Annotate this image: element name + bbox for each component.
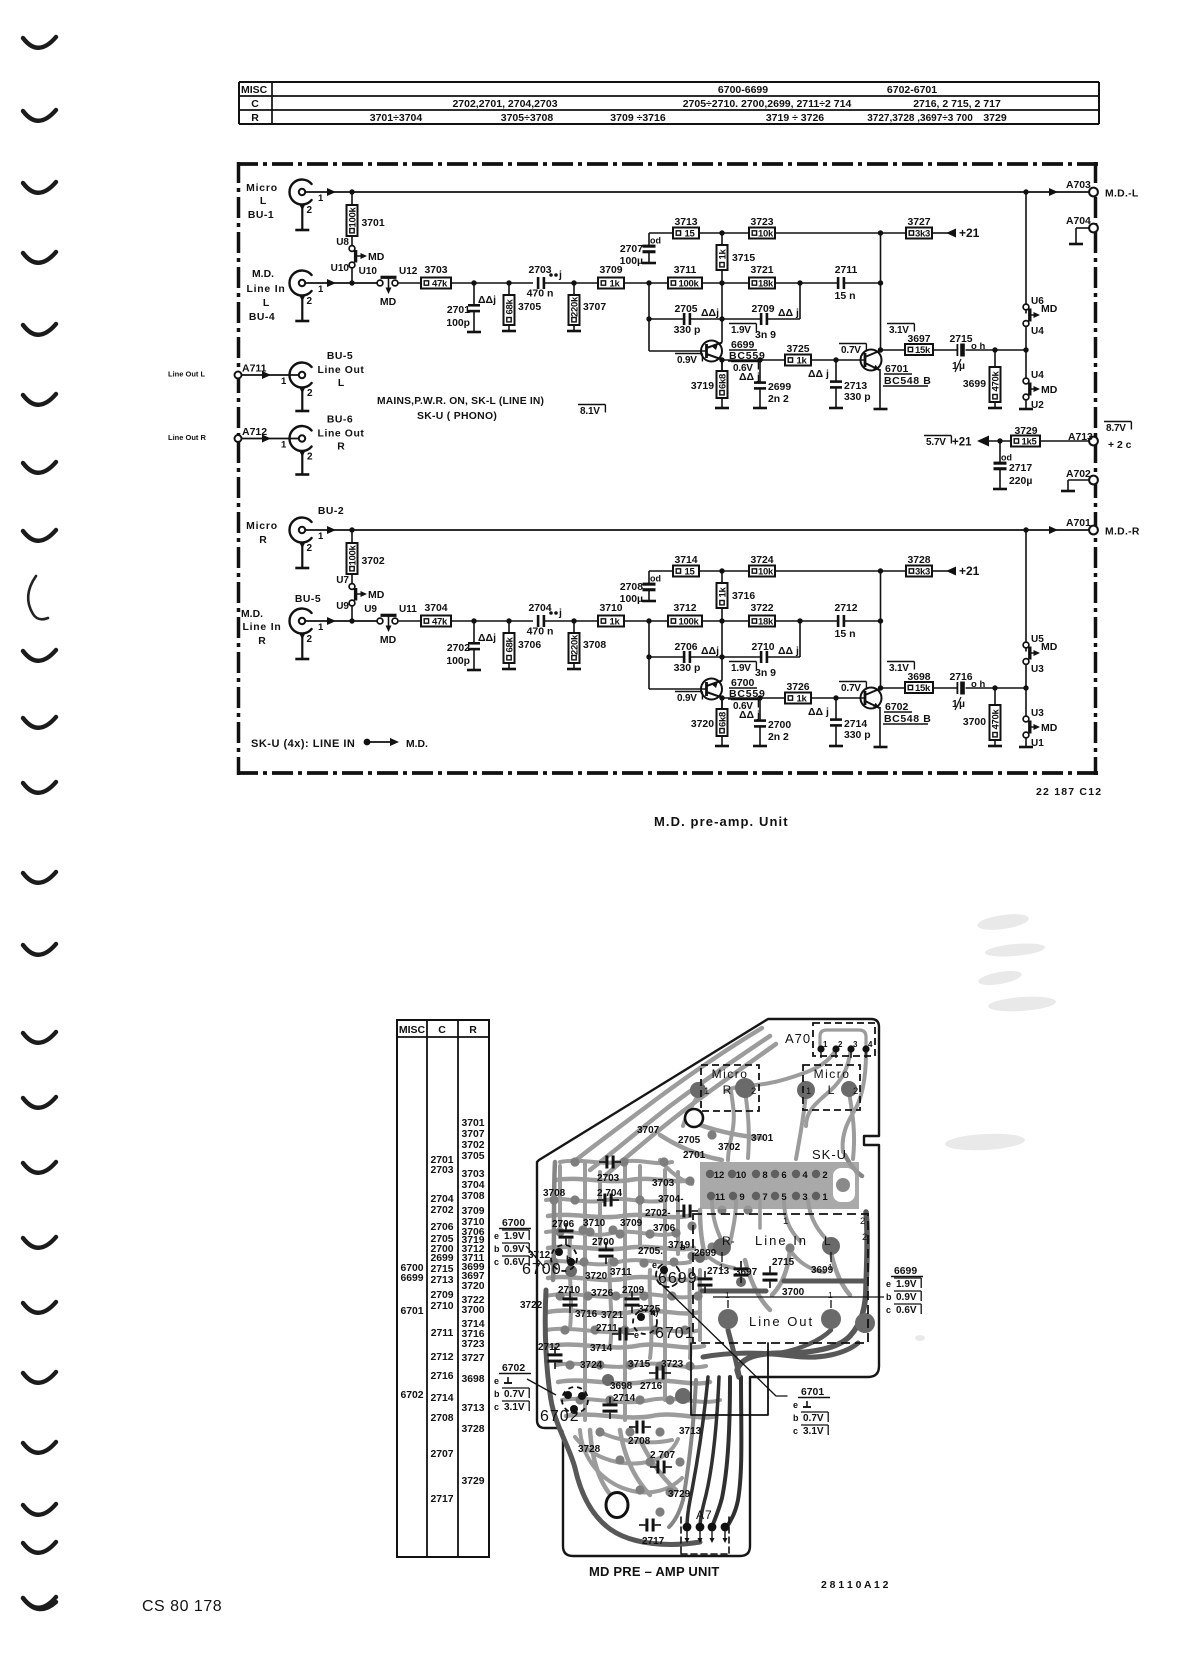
- PCB 2717 cap: [645, 1519, 648, 1532]
- svg-text:SK-U ( PHONO): SK-U ( PHONO): [417, 411, 497, 422]
- svg-text:e: e: [494, 1231, 499, 1241]
- wire 15n to collector node: [845, 620, 881, 622]
- svg-text:3705÷3708: 3705÷3708: [501, 112, 554, 124]
- PCB 2703 cap: [605, 1156, 608, 1169]
- svg-text:2717: 2717: [642, 1536, 665, 1547]
- svg-text:Line Out R: Line Out R: [168, 433, 206, 442]
- svg-text:3701: 3701: [362, 218, 385, 229]
- svg-text:2: 2: [307, 296, 313, 307]
- svg-text:MAINS,P.W.R. ON, SK-L (LINE I: MAINS,P.W.R. ON, SK-L (LINE IN): [377, 396, 544, 407]
- wire feedback row L: [649, 232, 673, 234]
- svg-text:b: b: [494, 1244, 500, 1254]
- svg-text:100µ: 100µ: [620, 594, 643, 605]
- svg-text:2703: 2703: [430, 1165, 453, 1176]
- svg-text:3725: 3725: [638, 1304, 661, 1315]
- svg-text:2706: 2706: [430, 1222, 453, 1233]
- svg-text:2705÷2710. 2700,2699, 2711÷2 7: 2705÷2710. 2700,2699, 2711÷2 714: [683, 98, 852, 110]
- PCB 2700 cap: [599, 1248, 614, 1251]
- svg-text:BU-6: BU-6: [327, 415, 353, 426]
- resistor 3705 68k: [508, 283, 510, 295]
- svg-text:6699: 6699: [658, 1270, 698, 1287]
- PCB 2713 cap: [734, 1267, 749, 1270]
- svg-text:6701: 6701: [655, 1325, 695, 1342]
- svg-text:470 n: 470 n: [527, 288, 554, 300]
- svg-text:ΔΔj: ΔΔj: [701, 307, 719, 319]
- svg-text:e: e: [886, 1279, 891, 1289]
- svg-text:3720: 3720: [585, 1271, 608, 1282]
- svg-text:Line Out: Line Out: [318, 429, 365, 440]
- svg-text:3714: 3714: [590, 1343, 613, 1354]
- wire to 100k: [624, 620, 668, 622]
- svg-text:3722: 3722: [520, 1300, 543, 1311]
- svg-text:M.D.: M.D.: [252, 269, 274, 280]
- svg-text:3725: 3725: [786, 344, 809, 355]
- svg-text:2711: 2711: [431, 1328, 454, 1339]
- svg-text:ΔΔj: ΔΔj: [701, 645, 719, 657]
- svg-text:2704: 2704: [528, 603, 551, 614]
- svg-text:L: L: [338, 378, 345, 389]
- wire 1u to switch node: [966, 349, 1027, 351]
- svg-text:R: R: [469, 1024, 477, 1036]
- svg-text:6: 6: [781, 1170, 786, 1181]
- capacitor 2707 100&#181;: [648, 233, 650, 246]
- svg-text:1: 1: [318, 622, 324, 633]
- svg-text:6700-6699: 6700-6699: [718, 84, 768, 96]
- svg-text:4: 4: [868, 1040, 873, 1049]
- svg-text:Micro: Micro: [246, 183, 278, 194]
- svg-text:ΔΔ j: ΔΔ j: [808, 368, 829, 380]
- svg-text:U12: U12: [399, 266, 418, 277]
- svg-text:3727: 3727: [461, 1353, 484, 1364]
- svg-text:L: L: [828, 1083, 835, 1097]
- svg-text:M.D.: M.D.: [406, 739, 428, 750]
- svg-text:2707: 2707: [620, 244, 643, 255]
- PCB 2711 cap: [618, 1328, 621, 1341]
- svg-text:3716: 3716: [732, 591, 755, 602]
- terminal A712: [235, 435, 242, 442]
- transistor 6702 BC548B: [861, 688, 882, 709]
- svg-text:3698: 3698: [461, 1374, 484, 1385]
- svg-text:47k: 47k: [432, 279, 448, 290]
- svg-text:0.9V: 0.9V: [677, 693, 697, 704]
- svg-text:1: 1: [828, 1290, 833, 1300]
- PCB connector Micro R (dashed): [701, 1065, 759, 1111]
- resistor 3704 47k: [421, 616, 451, 627]
- svg-text:3706: 3706: [653, 1223, 676, 1234]
- svg-text:2710: 2710: [558, 1285, 581, 1296]
- svg-text:1: 1: [318, 531, 324, 542]
- svg-text:6702-6701: 6702-6701: [887, 84, 937, 96]
- svg-text:2703: 2703: [528, 265, 551, 276]
- PCB solder pads: [549, 1195, 558, 1204]
- svg-text:2717: 2717: [1009, 463, 1032, 474]
- svg-text:330 p: 330 p: [844, 392, 871, 403]
- svg-text:3705: 3705: [461, 1151, 484, 1162]
- svg-text:18k: 18k: [758, 617, 774, 628]
- svg-text:8: 8: [762, 1170, 767, 1181]
- svg-text:2702: 2702: [447, 643, 470, 654]
- svg-text:2713: 2713: [707, 1266, 730, 1277]
- svg-text:0.7V: 0.7V: [504, 1389, 525, 1400]
- svg-text:3: 3: [853, 1040, 858, 1049]
- wire to 100k: [624, 282, 668, 284]
- PCB 2702 cap: [682, 1205, 685, 1218]
- page binding marks: [23, 37, 56, 48]
- svg-text:330 p: 330 p: [674, 662, 701, 674]
- svg-text:2710: 2710: [430, 1301, 453, 1312]
- svg-text:U8: U8: [336, 237, 349, 248]
- transistor 6699 BC559: [701, 341, 722, 362]
- wire 1k to base: [811, 359, 864, 361]
- resistor 3724 10k: [749, 566, 775, 577]
- svg-text:4: 4: [802, 1170, 808, 1181]
- capacitor 2700 2n2: [759, 698, 761, 720]
- switch U3/U1 MD: [1025, 688, 1027, 716]
- svg-text:2713: 2713: [430, 1275, 453, 1286]
- PCB 2710 cap: [563, 1297, 578, 1300]
- svg-text:3722: 3722: [750, 603, 773, 614]
- svg-text:15 n: 15 n: [834, 628, 855, 640]
- svg-text:3704-: 3704-: [658, 1194, 684, 1205]
- svg-text:2700: 2700: [592, 1237, 615, 1248]
- capacitor 2713 330p: [835, 360, 837, 381]
- wire line-in rail R: [305, 620, 377, 622]
- terminal A713: [1089, 437, 1098, 446]
- svg-text:1k: 1k: [797, 694, 808, 705]
- svg-text:0.7V: 0.7V: [841, 683, 861, 694]
- svg-text:9: 9: [739, 1192, 744, 1203]
- svg-text:2702: 2702: [430, 1205, 453, 1216]
- svg-text:2705: 2705: [678, 1135, 701, 1146]
- svg-text:U9: U9: [364, 604, 377, 615]
- svg-text:2706: 2706: [552, 1219, 575, 1230]
- svg-text:3719: 3719: [668, 1240, 691, 1251]
- svg-text:A702: A702: [1066, 469, 1091, 480]
- svg-text:Line Out: Line Out: [318, 365, 365, 376]
- svg-text:3n 9: 3n 9: [755, 329, 776, 341]
- svg-text:1: 1: [822, 1192, 828, 1203]
- resistor 3708 220k: [573, 621, 575, 633]
- PCB connector Line In / Line Out (dashed): [693, 1214, 868, 1343]
- svg-text:3700: 3700: [963, 717, 986, 728]
- svg-text:2705: 2705: [674, 304, 697, 315]
- photocopy smudges: [915, 911, 1056, 1341]
- resistor 3711 100k: [668, 278, 702, 289]
- svg-text:2702,2701, 2704,2703: 2702,2701, 2704,2703: [452, 98, 557, 110]
- svg-text:R: R: [251, 112, 259, 124]
- svg-text:3697: 3697: [735, 1267, 758, 1278]
- svg-text:5.7V: 5.7V: [926, 437, 946, 448]
- svg-text:3723: 3723: [750, 217, 773, 228]
- PCB transistor 6701 outline: [633, 1310, 657, 1334]
- svg-text:Micro: Micro: [246, 521, 278, 532]
- svg-text:6699: 6699: [400, 1273, 423, 1284]
- svg-text:2 8 1 1 0 A 1 2: 2 8 1 1 0 A 1 2: [821, 1580, 889, 1591]
- svg-text:2708: 2708: [620, 582, 643, 593]
- svg-text:b: b: [494, 1389, 500, 1399]
- svg-text:3709 ÷3716: 3709 ÷3716: [610, 112, 666, 124]
- PCB copper traces (light): [820, 1030, 866, 1049]
- svg-text:2716, 2 715, 2 717: 2716, 2 715, 2 717: [913, 98, 1001, 110]
- svg-text:2701: 2701: [683, 1150, 706, 1161]
- svg-text:1k: 1k: [797, 356, 808, 367]
- svg-text:M.D.-R: M.D.-R: [1105, 527, 1140, 538]
- capacitor 2712 15n: [837, 615, 840, 627]
- capacitor 2717 220u: [999, 441, 1001, 462]
- resistor 3726 1k: [785, 693, 811, 704]
- svg-text:c: c: [494, 1402, 499, 1412]
- svg-text:3706: 3706: [518, 640, 541, 651]
- PCB 2709 cap: [625, 1297, 640, 1300]
- svg-text:U11: U11: [399, 604, 417, 615]
- svg-text:MD PRE – AMP UNIT: MD PRE – AMP UNIT: [589, 1564, 720, 1579]
- wire line-in rail middle: [451, 620, 533, 622]
- svg-text:15: 15: [685, 567, 696, 578]
- svg-text:6700: 6700: [502, 1218, 525, 1229]
- svg-text:c: c: [886, 1305, 891, 1315]
- parts list table MISC C R: [397, 1020, 489, 1557]
- terminal A702: [1089, 476, 1098, 485]
- svg-text:U4: U4: [1031, 370, 1044, 381]
- svg-text:2699: 2699: [694, 1248, 717, 1259]
- svg-text:330 p: 330 p: [674, 324, 701, 336]
- svg-text:j: j: [558, 269, 562, 281]
- resistor 3728 3k3: [906, 566, 932, 577]
- PCB connector SK-U: [700, 1162, 859, 1209]
- svg-text:220µ: 220µ: [1009, 476, 1032, 487]
- svg-text:3721: 3721: [750, 265, 773, 276]
- svg-text:2n 2: 2n 2: [768, 394, 789, 405]
- svg-text:68k: 68k: [505, 637, 516, 653]
- svg-text:3710: 3710: [583, 1218, 606, 1229]
- svg-text:L: L: [260, 196, 267, 207]
- svg-text:3719: 3719: [691, 381, 714, 392]
- wire resistor 3702 to switch: [351, 574, 353, 584]
- resistor 3709 1k: [598, 278, 624, 289]
- svg-text:2701: 2701: [447, 305, 470, 316]
- svg-text:3711: 3711: [674, 265, 697, 276]
- svg-text:1k: 1k: [610, 617, 621, 628]
- svg-text:3729: 3729: [668, 1489, 691, 1500]
- svg-text:3724: 3724: [750, 555, 773, 566]
- wire 18k to 15n: [775, 620, 837, 622]
- svg-text:2: 2: [307, 388, 313, 399]
- svg-text:2714: 2714: [613, 1393, 636, 1404]
- svg-text:3699: 3699: [963, 379, 986, 390]
- wire collector to 15k: [881, 687, 906, 689]
- PCB 2714 cap: [603, 1403, 618, 1406]
- svg-text:3726: 3726: [591, 1288, 614, 1299]
- svg-text:6702: 6702: [540, 1408, 580, 1425]
- switch U7/U9 MD: [349, 584, 355, 590]
- svg-text:1.9V: 1.9V: [731, 663, 751, 674]
- svg-text:15k: 15k: [915, 683, 931, 694]
- svg-text:U10: U10: [331, 263, 350, 274]
- connector BU-1 Micro L: [289, 179, 311, 204]
- svg-text:U10: U10: [359, 266, 378, 277]
- svg-text:3714: 3714: [674, 555, 697, 566]
- svg-text:6702: 6702: [400, 1390, 423, 1401]
- resistor 3701 100k: [347, 205, 358, 236]
- svg-text:MD: MD: [1041, 722, 1058, 734]
- svg-text:2699: 2699: [768, 382, 791, 393]
- switch U5/U3 MD: [1025, 530, 1027, 652]
- wire switch to resistor 3704: [398, 620, 421, 622]
- wire 3729 to A713: [1040, 440, 1089, 442]
- wire 1u to switch node: [966, 687, 1027, 689]
- svg-text:12: 12: [714, 1170, 725, 1181]
- svg-text:BU-1: BU-1: [248, 210, 274, 221]
- svg-text:3: 3: [802, 1192, 807, 1203]
- svg-text:68k: 68k: [505, 299, 516, 315]
- svg-text:2704: 2704: [430, 1194, 453, 1205]
- svg-text:2: 2: [838, 1040, 843, 1049]
- wire 18k to 15n: [775, 282, 837, 284]
- svg-text:b: b: [566, 1254, 572, 1264]
- PCB connector body below Line Out: [691, 1343, 768, 1415]
- svg-text:U9: U9: [336, 601, 349, 612]
- svg-text:6k8: 6k8: [718, 712, 729, 727]
- svg-text:MD: MD: [380, 296, 397, 308]
- capacitor 2716 1&#181;: [956, 682, 958, 694]
- svg-text:+21: +21: [959, 226, 980, 240]
- svg-text:3707: 3707: [637, 1125, 660, 1136]
- svg-text:3727,3728 ,3697÷3 700: 3727,3728 ,3697÷3 700: [867, 113, 973, 124]
- wire collector to 15k: [881, 349, 906, 351]
- svg-text:ΔΔ j: ΔΔ j: [778, 307, 799, 319]
- wire 15n to collector node: [845, 282, 881, 284]
- svg-text:3708: 3708: [543, 1188, 566, 1199]
- svg-text:3697: 3697: [907, 334, 930, 345]
- svg-text:R: R: [723, 1083, 732, 1097]
- svg-text:SK-U: SK-U: [812, 1147, 847, 1162]
- svg-text:3723: 3723: [461, 1339, 484, 1350]
- resistor 3702 100k: [347, 543, 358, 574]
- resistor 3698 15k: [905, 682, 933, 693]
- svg-text:3n 9: 3n 9: [755, 667, 776, 679]
- svg-text:e: e: [793, 1400, 798, 1410]
- svg-text:ΔΔj: ΔΔj: [478, 294, 496, 306]
- terminal A704: [1089, 224, 1098, 233]
- resistor 3714 15: [673, 566, 699, 577]
- svg-text:e: e: [494, 1376, 499, 1386]
- svg-text:2716: 2716: [430, 1371, 453, 1382]
- wire A711 to connector: [242, 374, 299, 376]
- svg-text:3723: 3723: [661, 1359, 684, 1370]
- svg-text:3709: 3709: [620, 1218, 643, 1229]
- svg-text:A701: A701: [1066, 518, 1091, 529]
- svg-text:2: 2: [853, 1086, 858, 1097]
- resistor 3710 1k: [598, 616, 624, 627]
- svg-text:2712: 2712: [834, 603, 857, 614]
- svg-text:3727: 3727: [907, 217, 930, 228]
- wire emitter branch R: [648, 621, 650, 689]
- svg-text:ΔΔ j: ΔΔ j: [739, 371, 760, 383]
- svg-text:1k: 1k: [718, 587, 729, 598]
- svg-text:Line In: Line In: [242, 622, 281, 633]
- svg-text:3707: 3707: [461, 1129, 484, 1140]
- capacitor 2703 470n: [537, 277, 540, 289]
- svg-text:3k3: 3k3: [915, 567, 930, 578]
- resistor 3720 6k8: [717, 709, 728, 736]
- svg-text:1: 1: [318, 284, 324, 295]
- svg-text:3726: 3726: [786, 682, 809, 693]
- svg-text:3699: 3699: [811, 1265, 834, 1276]
- svg-text:0.6V: 0.6V: [504, 1257, 525, 1268]
- transistor 6701 BC548B: [861, 350, 882, 371]
- svg-text:47k: 47k: [432, 617, 448, 628]
- svg-text:2707: 2707: [430, 1449, 453, 1460]
- svg-text:3702: 3702: [362, 556, 385, 567]
- svg-text:R: R: [259, 535, 267, 546]
- resistor 3716 1k: [721, 571, 723, 583]
- wire 15k to 1u: [933, 687, 957, 689]
- svg-text:6702: 6702: [502, 1363, 525, 1374]
- svg-text:MD: MD: [368, 589, 385, 601]
- svg-text:2712: 2712: [538, 1342, 561, 1353]
- svg-text:8.7V: 8.7V: [1106, 423, 1126, 434]
- connector BU-4 Line In L: [289, 271, 311, 296]
- svg-text:2: 2: [822, 1170, 827, 1181]
- svg-text:A70: A70: [785, 1031, 811, 1046]
- svg-text:18k: 18k: [758, 279, 774, 290]
- svg-text:U7: U7: [336, 575, 349, 586]
- svg-text:2700: 2700: [768, 720, 791, 731]
- svg-text:od: od: [650, 574, 661, 584]
- resistor 3707 220k: [573, 283, 575, 295]
- resistor 3697 15k: [905, 344, 933, 355]
- capacitor 2701 100p: [473, 283, 475, 305]
- svg-text:6701: 6701: [801, 1387, 824, 1398]
- svg-text:3715: 3715: [732, 253, 755, 264]
- svg-text:0.9V: 0.9V: [896, 1292, 917, 1303]
- svg-text:10k: 10k: [758, 229, 774, 240]
- wire line-in rail L: [305, 282, 377, 284]
- svg-text:2: 2: [307, 543, 313, 554]
- svg-text:R-: R-: [722, 1234, 735, 1248]
- svg-text:od: od: [650, 236, 661, 246]
- resistor 3700 470k: [994, 688, 996, 705]
- svg-text:470 n: 470 n: [527, 626, 554, 638]
- PCB connector Micro L (dashed): [803, 1065, 860, 1110]
- svg-text:MD: MD: [368, 251, 385, 263]
- svg-text:15k: 15k: [915, 345, 931, 356]
- capacitor 2711 15n: [837, 277, 840, 289]
- PCB copper traces (dark): [737, 1212, 867, 1377]
- wire micro rail R: [305, 529, 1089, 531]
- svg-text:1: 1: [823, 1040, 828, 1049]
- svg-text:470k: 470k: [991, 709, 1002, 730]
- svg-text:10: 10: [736, 1170, 747, 1181]
- svg-text:3700: 3700: [461, 1305, 484, 1316]
- svg-text:R: R: [258, 636, 266, 647]
- svg-text:1k: 1k: [610, 279, 621, 290]
- svg-text:3700: 3700: [782, 1287, 805, 1298]
- wire 100k to 18k: [702, 620, 749, 622]
- svg-text:1: 1: [281, 376, 287, 387]
- switch U9/U11 MD: [377, 618, 383, 624]
- connector BU-2 Micro R: [289, 518, 311, 543]
- resistor 3712 100k: [668, 616, 702, 627]
- svg-text:3.1V: 3.1V: [889, 663, 909, 674]
- wire 3k3 to +21 feed: [932, 232, 948, 234]
- resistor 3703 47k: [421, 278, 451, 289]
- svg-text:3721: 3721: [601, 1310, 624, 1321]
- svg-text:ΔΔ j: ΔΔ j: [808, 706, 829, 718]
- svg-text:3711: 3711: [610, 1267, 632, 1278]
- connector BU-5 Line In R: [289, 609, 311, 634]
- svg-text:3701: 3701: [461, 1118, 484, 1129]
